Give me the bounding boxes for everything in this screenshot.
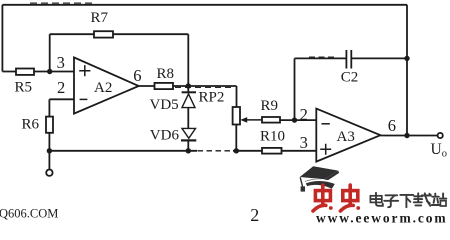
- svg-text:www.eeworm.com: www.eeworm.com: [316, 210, 448, 224]
- op-amp A3 plus sign: [320, 144, 331, 155]
- svg-text:Uo: Uo: [431, 141, 447, 160]
- potentiometer RP2 wiper arrow: [240, 117, 262, 123]
- wire input line to pin 3: [2, 71, 74, 73]
- resistor R8: [155, 83, 174, 89]
- watermark text dianzi xiazaizhan: [370, 193, 446, 207]
- node R8/R7/VD5 junction: [186, 83, 191, 88]
- terminal open circle: [46, 170, 52, 176]
- diode VD5: [182, 86, 196, 128]
- wire right vertical: [406, 5, 408, 136]
- svg-text:A3: A3: [337, 129, 355, 145]
- node R6/terminal junction: [47, 148, 52, 153]
- wire C2 line right: [351, 57, 407, 59]
- node R5/R7/pin3 junction: [47, 69, 52, 74]
- op-amp A3 minus sign: [322, 123, 330, 125]
- resistor R9: [262, 117, 280, 123]
- wire R7 right vertical: [187, 34, 189, 86]
- watermark red logo char 1: [313, 185, 333, 211]
- scan noise above top rail: [30, 2, 95, 4]
- wire C2 line left: [295, 57, 347, 59]
- output open circle: [438, 133, 443, 138]
- wire RP2 top lead: [236, 86, 238, 107]
- wire pin2 down to R6: [48, 99, 50, 116]
- resistor R10: [262, 148, 282, 154]
- svg-text:RP2: RP2: [199, 90, 225, 106]
- op-amp A2 plus sign: [79, 65, 90, 76]
- diode VD6: [181, 128, 196, 150]
- capacitor C2: [346, 50, 351, 69]
- scan noise below A2 output line: [175, 86, 233, 88]
- wire A2 pin2: [49, 98, 74, 100]
- wire top rail: [2, 4, 407, 6]
- svg-text:2: 2: [57, 78, 65, 97]
- svg-text:3: 3: [57, 53, 65, 72]
- watermark red logo char 2: [340, 185, 360, 211]
- op-amp A2 minus sign: [80, 98, 88, 100]
- wire bottom rail right: [233, 150, 316, 152]
- svg-text:A2: A2: [94, 80, 112, 96]
- wire A3 output: [380, 135, 437, 137]
- svg-text:6: 6: [133, 66, 141, 85]
- svg-text:VD5: VD5: [150, 97, 179, 113]
- node R9/C2/pin2 junction: [292, 117, 297, 122]
- wire left vertical: [1, 5, 3, 72]
- svg-text:6: 6: [388, 116, 396, 135]
- resistor R5: [16, 69, 34, 75]
- svg-text:Q606.COM: Q606.COM: [0, 207, 58, 221]
- wire bottom rail dashed segment: [198, 150, 234, 152]
- wire R7 line: [50, 33, 189, 35]
- wire RP2 bottom lead: [235, 125, 237, 151]
- wire pin2 node up: [294, 58, 296, 120]
- svg-text:R6: R6: [22, 117, 40, 133]
- svg-text:R8: R8: [157, 66, 175, 82]
- node toprail/C2 junction: [404, 56, 409, 61]
- wire terminal stub: [48, 151, 50, 169]
- svg-text:3: 3: [300, 133, 308, 152]
- node output junction: [404, 133, 409, 138]
- watermark graduation cap: [300, 166, 339, 191]
- svg-text:R9: R9: [261, 98, 279, 114]
- wire node3 to R7 vertical: [49, 34, 51, 71]
- svg-text:2: 2: [250, 205, 259, 224]
- svg-text:R10: R10: [260, 129, 285, 145]
- node RP2/rail junction: [234, 148, 239, 153]
- svg-text:2: 2: [300, 105, 308, 124]
- wire bottom rail: [49, 150, 197, 152]
- op-amp A2: [74, 57, 139, 113]
- resistor R6: [46, 117, 53, 133]
- resistor R7: [94, 31, 113, 37]
- wire R6 to bottom rail: [48, 133, 50, 151]
- node VD6/rail junction: [186, 148, 191, 153]
- svg-text:VD6: VD6: [150, 128, 180, 144]
- op-amp A3: [316, 109, 380, 162]
- svg-text:R7: R7: [91, 10, 109, 26]
- svg-text:C2: C2: [341, 70, 359, 86]
- potentiometer RP2 body: [233, 107, 240, 125]
- scan noise above C2 line: [309, 56, 336, 58]
- svg-text:R5: R5: [15, 80, 33, 96]
- wire A2 output: [139, 85, 237, 87]
- wire wiper to A3 pin2: [262, 119, 316, 121]
